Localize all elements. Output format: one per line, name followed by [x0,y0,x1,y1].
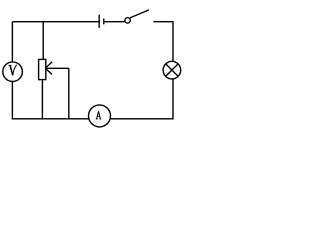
ammeter: meter circle [89,105,111,127]
ammeter label A (serif, drawn as paths) [96,111,102,119]
wire: rheostat bottom terminal down to bottom bus [41,80,43,119]
switch: pivot circle [125,18,130,23]
voltmeter: meter circle [3,62,23,82]
wire: switch right terminal to top-right corner down to lamp [153,22,173,62]
voltmeter label V (italic serif, drawn as paths) [9,65,17,76]
lamp: bulb circle [163,61,181,79]
wire: left riser from top bus down to voltmeter [11,22,13,63]
rheostat: slider arrow upper barb [45,62,52,69]
rheostat: slider arrow lower barb [45,68,52,74]
battery cell: long (positive) plate [98,15,100,28]
lamp: X filament diagonal 2 [166,64,178,76]
lamp: X filament diagonal 1 [166,64,178,76]
wire: slider branch vertical down to bottom bus [68,68,70,119]
rheostat: resistor body rectangle [39,59,46,79]
wire: branch from top bus down to rheostat top terminal [42,22,44,60]
wire: lamp bottom to bottom-right corner to ammeter right terminal [110,79,173,119]
wire: slider arm horizontal run to corner [45,67,69,69]
wire: ammeter left terminal along bottom bus to bottom-left corner up to voltmeter [12,82,88,119]
wire: battery negative to switch pivot [104,21,125,23]
battery cell: short (negative) plate [103,19,105,25]
wire: top bus from top-left corner to battery positive plate [12,21,99,23]
switch: open blade [130,10,149,18]
